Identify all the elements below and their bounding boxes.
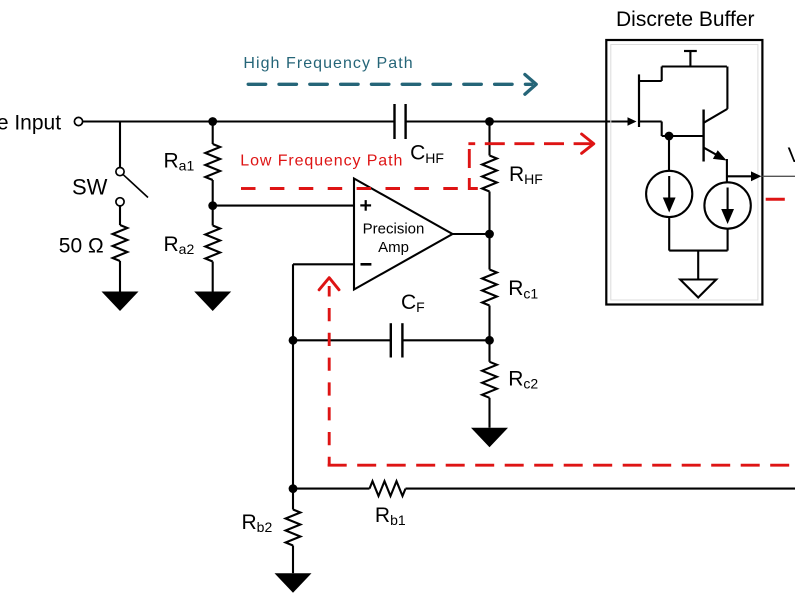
svg-text:e Input: e Input: [0, 112, 61, 135]
svg-text:V: V: [788, 144, 795, 167]
svg-text:Discrete Buffer: Discrete Buffer: [616, 8, 755, 31]
svg-text:Amp: Amp: [378, 239, 409, 256]
svg-text:SW: SW: [72, 175, 108, 200]
svg-text:High Frequency Path: High Frequency Path: [243, 55, 413, 72]
svg-text:Precision: Precision: [363, 221, 425, 238]
svg-text:50 Ω: 50 Ω: [59, 234, 104, 257]
svg-text:Low Frequency Path: Low Frequency Path: [240, 152, 403, 169]
